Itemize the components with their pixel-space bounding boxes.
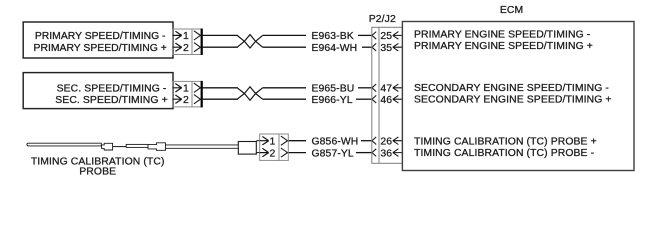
P2/J2 strip divider xyxy=(378,27,380,163)
pin 25 ECM arrow xyxy=(393,32,403,40)
svg-text:PRIMARY SPEED/TIMING -: PRIMARY SPEED/TIMING - xyxy=(35,31,166,42)
cable end plug xyxy=(238,142,256,155)
mating chevron pin 1 xyxy=(194,31,201,40)
svg-text:26: 26 xyxy=(380,137,392,148)
pin 35 ECM arrow xyxy=(393,43,403,51)
connector face line xyxy=(201,81,203,108)
svg-text:1: 1 xyxy=(269,137,275,148)
mating chevron pin 1 xyxy=(194,83,201,92)
inline connector plug xyxy=(148,143,166,151)
stub to connector pin 2 xyxy=(256,152,259,154)
svg-text:1: 1 xyxy=(183,31,189,42)
inline connector body xyxy=(126,144,148,147)
svg-text:PROBE: PROBE xyxy=(79,167,116,178)
connector box (mating side) xyxy=(192,29,201,55)
svg-text:1: 1 xyxy=(183,84,189,95)
svg-text:2: 2 xyxy=(183,43,189,54)
wire E964 to connector xyxy=(362,46,372,48)
svg-text:35: 35 xyxy=(380,43,392,54)
svg-text:PRIMARY SPEED/TIMING +: PRIMARY SPEED/TIMING + xyxy=(34,43,167,54)
svg-text:36: 36 xyxy=(380,148,392,159)
svg-text:G857-YL: G857-YL xyxy=(312,148,354,159)
svg-text:PRIMARY ENGINE SPEED/TIMING +: PRIMARY ENGINE SPEED/TIMING + xyxy=(414,41,593,52)
connector box (pins 1,2) xyxy=(260,134,279,160)
pin 47 ECM arrow xyxy=(393,84,403,92)
twisted pair symbol xyxy=(237,88,244,99)
primary speed/timing sensor box xyxy=(23,22,173,58)
wire primary - xyxy=(202,34,238,36)
svg-text:TIMING CALIBRATION (TC) PROBE: TIMING CALIBRATION (TC) PROBE - xyxy=(414,148,594,159)
pin 2 arrow xyxy=(173,43,182,51)
P2/J2 pin 36 plug chevron xyxy=(372,149,376,157)
pin 1 arrow xyxy=(260,137,269,145)
svg-text:SECONDARY ENGINE SPEED/TIMING: SECONDARY ENGINE SPEED/TIMING - xyxy=(414,83,609,94)
twisted pair symbol xyxy=(237,35,244,47)
svg-text:E966-YL: E966-YL xyxy=(312,95,353,106)
pin 46 ECM arrow xyxy=(393,95,403,103)
wire to label E965 xyxy=(263,87,306,89)
mating chevron pin 2 xyxy=(194,95,201,104)
P2/J2 pin 35 plug chevron xyxy=(372,43,376,51)
pin 1 arrow xyxy=(173,84,182,92)
svg-text:SEC. SPEED/TIMING -: SEC. SPEED/TIMING - xyxy=(57,84,167,95)
connector box (pins 1,2) xyxy=(173,81,192,107)
svg-text:P2/J2: P2/J2 xyxy=(369,14,396,25)
svg-text:ECM: ECM xyxy=(500,5,523,16)
wire secondary + xyxy=(202,98,238,100)
pin 2 arrow xyxy=(173,95,182,103)
wire to label G856 xyxy=(289,140,306,142)
svg-text:47: 47 xyxy=(380,84,392,95)
svg-text:E963-BK: E963-BK xyxy=(312,31,354,42)
svg-text:2: 2 xyxy=(269,148,275,159)
wire E965 to connector xyxy=(358,87,372,89)
wire to label E963 xyxy=(263,34,306,36)
wire secondary - xyxy=(202,87,238,89)
wire to label E964 xyxy=(263,46,306,48)
mating chevron pin 2 xyxy=(194,43,201,52)
svg-text:G856-WH: G856-WH xyxy=(312,137,359,148)
pin 26 ECM arrow xyxy=(393,137,403,145)
svg-text:PRIMARY ENGINE SPEED/TIMING -: PRIMARY ENGINE SPEED/TIMING - xyxy=(414,29,590,40)
connector box (mating side) xyxy=(279,134,288,160)
probe plug xyxy=(102,143,113,150)
P2/J2 pin 47 plug chevron xyxy=(372,84,376,92)
svg-text:SEC. SPEED/TIMING +: SEC. SPEED/TIMING + xyxy=(55,95,167,106)
P2/J2 pin 25 plug chevron xyxy=(372,32,376,40)
pin 2 arrow xyxy=(260,148,269,156)
mating chevron pin 1 xyxy=(281,136,288,145)
wire to label G857 xyxy=(289,152,306,154)
TC probe needle xyxy=(27,143,101,146)
wire E966 to connector xyxy=(356,98,372,100)
stub to connector pin 1 xyxy=(256,140,259,142)
pin 1 arrow xyxy=(173,31,182,39)
svg-text:TIMING CALIBRATION (TC) PROBE: TIMING CALIBRATION (TC) PROBE + xyxy=(414,136,597,147)
P2/J2 pin 46 plug chevron xyxy=(372,95,376,103)
wire primary + xyxy=(202,46,238,48)
ECM box xyxy=(402,22,634,171)
P2/J2 pin 26 plug chevron xyxy=(372,137,376,145)
connector face line xyxy=(201,29,203,56)
svg-text:46: 46 xyxy=(380,95,392,106)
secondary speed/timing sensor box xyxy=(23,73,173,109)
wire G856 to connector xyxy=(361,140,372,142)
wire G857 to connector xyxy=(356,152,372,154)
probe cable xyxy=(166,145,239,148)
wire E963 to connector xyxy=(358,34,372,36)
wire to label E966 xyxy=(263,98,306,100)
pin 36 ECM arrow xyxy=(393,149,403,157)
svg-text:2: 2 xyxy=(183,95,189,106)
svg-text:E964-WH: E964-WH xyxy=(312,43,358,54)
P2/J2 connector strip xyxy=(372,27,403,163)
svg-text:E965-BU: E965-BU xyxy=(312,84,355,95)
svg-text:25: 25 xyxy=(380,31,392,42)
connector box (mating side) xyxy=(192,81,201,107)
mating chevron pin 2 xyxy=(281,148,288,157)
svg-text:SECONDARY ENGINE SPEED/TIMING: SECONDARY ENGINE SPEED/TIMING + xyxy=(414,94,612,105)
probe lead wire xyxy=(113,146,127,148)
connector box (pins 1,2) xyxy=(173,29,192,55)
